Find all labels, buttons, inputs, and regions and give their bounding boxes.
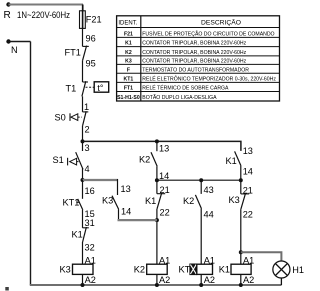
svg-text:DESCRIÇÃO: DESCRIÇÃO — [201, 18, 241, 27]
svg-text:N: N — [11, 45, 18, 55]
wire H1 to N bus — [280, 278, 282, 285]
svg-text:H1: H1 — [292, 265, 304, 275]
table row K3 — [125, 59, 247, 65]
svg-text:K2: K2 — [139, 155, 150, 165]
svg-text:A2: A2 — [243, 275, 254, 285]
svg-text:4: 4 — [85, 164, 90, 174]
wire fuse to FT1 — [82, 28, 84, 46]
thermostat contact T1 (NC) — [82, 81, 88, 96]
wire T1 to S0 — [82, 96, 84, 112]
wire K2 coil to N bus — [156, 274, 158, 285]
wire K2 aux to node — [156, 166, 158, 180]
svg-text:31: 31 — [85, 218, 95, 228]
svg-text:K1: K1 — [72, 230, 83, 240]
wire H1 branch horizontal — [241, 252, 282, 261]
svg-text:RELÉ ELETRÔNICO TEMPORIZADOR 0: RELÉ ELETRÔNICO TEMPORIZADOR 0-30s, 220V… — [142, 76, 276, 83]
table row K1 — [125, 41, 247, 47]
svg-text:43: 43 — [204, 185, 214, 195]
auxiliary contact K2 43/44 (NO) — [195, 180, 201, 209]
svg-text:K1: K1 — [125, 41, 132, 47]
wire FT1 to T1 — [82, 60, 84, 82]
junction K1-A2 on N bus — [239, 283, 243, 287]
svg-text:13: 13 — [159, 144, 169, 154]
wire bottom N bus — [30, 284, 282, 286]
svg-text:T1: T1 — [66, 84, 77, 94]
svg-text:CONTATOR TRIPOLAR, BOBINA 220V: CONTATOR TRIPOLAR, BOBINA 220V-60Hz — [142, 41, 246, 47]
svg-text:44: 44 — [204, 210, 214, 220]
svg-text:13: 13 — [121, 184, 131, 194]
svg-text:A2: A2 — [204, 275, 215, 285]
auxiliary contact K1 31/32 (NC) — [83, 227, 89, 242]
wire K1 aux to bus B-right — [240, 166, 242, 180]
svg-text:BOTÃO DUPLO LIGA-DESLIGA: BOTÃO DUPLO LIGA-DESLIGA — [142, 94, 217, 101]
corner artifact mark — [5, 287, 9, 291]
svg-text:S0: S0 — [55, 113, 66, 123]
svg-text:K1: K1 — [145, 196, 156, 206]
coil K3 — [73, 264, 94, 274]
node R terminal dot — [6, 2, 10, 6]
svg-text:F: F — [127, 67, 130, 73]
auxiliary contact K3 21/22 (NC) — [241, 180, 249, 209]
wire K2-44 to KT1 coil — [200, 209, 202, 265]
coil K2 — [147, 264, 168, 274]
svg-text:RELÉ TÉRMICO DE SOBRE CARGA: RELÉ TÉRMICO DE SOBRE CARGA — [142, 85, 229, 92]
wire K3-14 link to K2 coil column — [118, 209, 120, 220]
svg-text:22: 22 — [160, 208, 170, 218]
wire KT1 coil to N bus — [200, 274, 202, 285]
svg-text:96: 96 — [86, 34, 96, 44]
wire bus B-right — [157, 179, 241, 181]
wire bus B-left (node4 to K3 aux contact) — [83, 179, 119, 181]
svg-text:K3: K3 — [60, 265, 71, 275]
wire S1 to node 4 — [82, 168, 84, 180]
svg-text:1: 1 — [84, 102, 89, 112]
table row KT1 — [124, 76, 277, 83]
junction KT1-A2 on N bus — [199, 283, 203, 287]
wire N rail vertical — [30, 42, 32, 286]
svg-text:KT1: KT1 — [63, 198, 80, 208]
wire S0 to node 2 — [82, 126, 84, 142]
timer contact KT1 (NO) — [76, 180, 83, 210]
svg-text:32: 32 — [85, 243, 95, 253]
coil KT1 (timer) — [190, 264, 213, 275]
wire K1-22 to K2 coil — [156, 209, 158, 264]
coil K1 — [231, 264, 251, 274]
wire N rail horizontal — [9, 41, 31, 43]
svg-text:KT1: KT1 — [124, 77, 134, 83]
svg-text:A2: A2 — [159, 275, 170, 285]
wire K1 coil to N bus — [240, 274, 242, 285]
pushbutton S1 (NO) — [68, 141, 83, 169]
fuse F21 — [80, 10, 86, 28]
table row F — [127, 67, 249, 73]
svg-text:1N~220V-60Hz: 1N~220V-60Hz — [17, 10, 70, 21]
svg-text:FUSÍVEL DE PROTEÇÃO DO CIRCUIT: FUSÍVEL DE PROTEÇÃO DO CIRCUITO DE COMAN… — [142, 30, 274, 37]
svg-text:IDENT.: IDENT. — [118, 20, 137, 27]
wire K3-22 to K1 coil — [240, 209, 242, 264]
svg-text:2: 2 — [85, 125, 90, 135]
svg-text:S1: S1 — [53, 155, 64, 165]
svg-text:K2: K2 — [134, 265, 145, 275]
auxiliary contact K1 21/22 (NC) — [157, 180, 165, 209]
svg-text:A2: A2 — [85, 275, 96, 285]
svg-text:F21: F21 — [86, 15, 102, 25]
legend table — [117, 16, 280, 101]
svg-text:FT1: FT1 — [65, 48, 81, 58]
svg-text:13: 13 — [243, 146, 253, 156]
table row F21 — [124, 30, 275, 37]
wire R rail down to fuse — [82, 5, 84, 12]
wire K3 coil to N bus — [82, 274, 84, 285]
junction bus B-right / K1-14 — [239, 178, 243, 182]
svg-text:K1: K1 — [219, 265, 230, 275]
svg-text:K3: K3 — [102, 195, 113, 205]
svg-text:KT: KT — [179, 265, 191, 275]
junction K2-A2 on N bus — [155, 283, 159, 287]
pushbutton S0 (NC) — [70, 111, 88, 125]
svg-text:CONTATOR TRIPOLAR, BOBINA 220V: CONTATOR TRIPOLAR, BOBINA 220V-60Hz — [142, 50, 246, 56]
svg-text:K2: K2 — [125, 50, 132, 56]
junction bus B-right / KT column — [199, 178, 203, 182]
wire K1 contact to K3 coil — [82, 242, 84, 264]
svg-text:14: 14 — [159, 171, 169, 181]
svg-text:S1-H1-S0: S1-H1-S0 — [117, 95, 140, 101]
thermostat box t° — [94, 82, 109, 93]
junction bus A / K2 seal-in — [155, 139, 159, 143]
node N terminal dot — [6, 39, 10, 43]
wire bus A (node2 to seal-in contacts) — [83, 141, 241, 151]
svg-text:R: R — [4, 10, 11, 21]
svg-text:3: 3 — [85, 143, 90, 153]
junction bus B-right / K2-14 — [155, 178, 159, 182]
dashed actuator link T1 — [86, 86, 95, 88]
auxiliary contact K3 13/14 (NO) — [112, 179, 119, 209]
wire R supply rail — [9, 4, 84, 6]
svg-text:95: 95 — [86, 59, 96, 69]
junction K3-A2 on N bus — [81, 283, 85, 287]
junction H1 branch — [239, 250, 243, 254]
table row FT1 — [124, 85, 229, 92]
svg-text:K2: K2 — [183, 196, 194, 206]
node 4 junction — [81, 178, 85, 182]
thermal overload contact FT1 (NC) — [83, 46, 89, 61]
wire KT1 to K1 contact — [82, 210, 84, 228]
svg-text:16: 16 — [85, 186, 95, 196]
svg-text:22: 22 — [243, 210, 253, 220]
table row K2 — [125, 50, 247, 56]
auxiliary contact K2 13/14 (NO seal-in) — [151, 141, 157, 166]
node 2 junction — [81, 139, 85, 143]
svg-text:F21: F21 — [124, 31, 133, 37]
lamp H1 — [273, 261, 290, 278]
auxiliary contact K1 13/14 (NO seal-in) — [235, 151, 241, 166]
svg-text:14: 14 — [243, 167, 253, 177]
svg-text:K3: K3 — [229, 195, 240, 205]
svg-text:K3: K3 — [125, 59, 132, 65]
svg-text:FT1: FT1 — [124, 86, 133, 92]
svg-text:TERMOSTATO DO AUTOTRANSFORMADO: TERMOSTATO DO AUTOTRANSFORMADOR — [142, 68, 249, 74]
svg-text:CONTATOR TRIPOLAR, BOBINA 220V: CONTATOR TRIPOLAR, BOBINA 220V-60Hz — [142, 59, 246, 65]
svg-text:K1: K1 — [226, 156, 237, 166]
table row S1-H1-S0 — [117, 94, 217, 101]
svg-text:14: 14 — [121, 207, 131, 217]
svg-text:t°: t° — [97, 83, 103, 93]
junction K3-14 link / K2 coil column — [155, 218, 159, 222]
